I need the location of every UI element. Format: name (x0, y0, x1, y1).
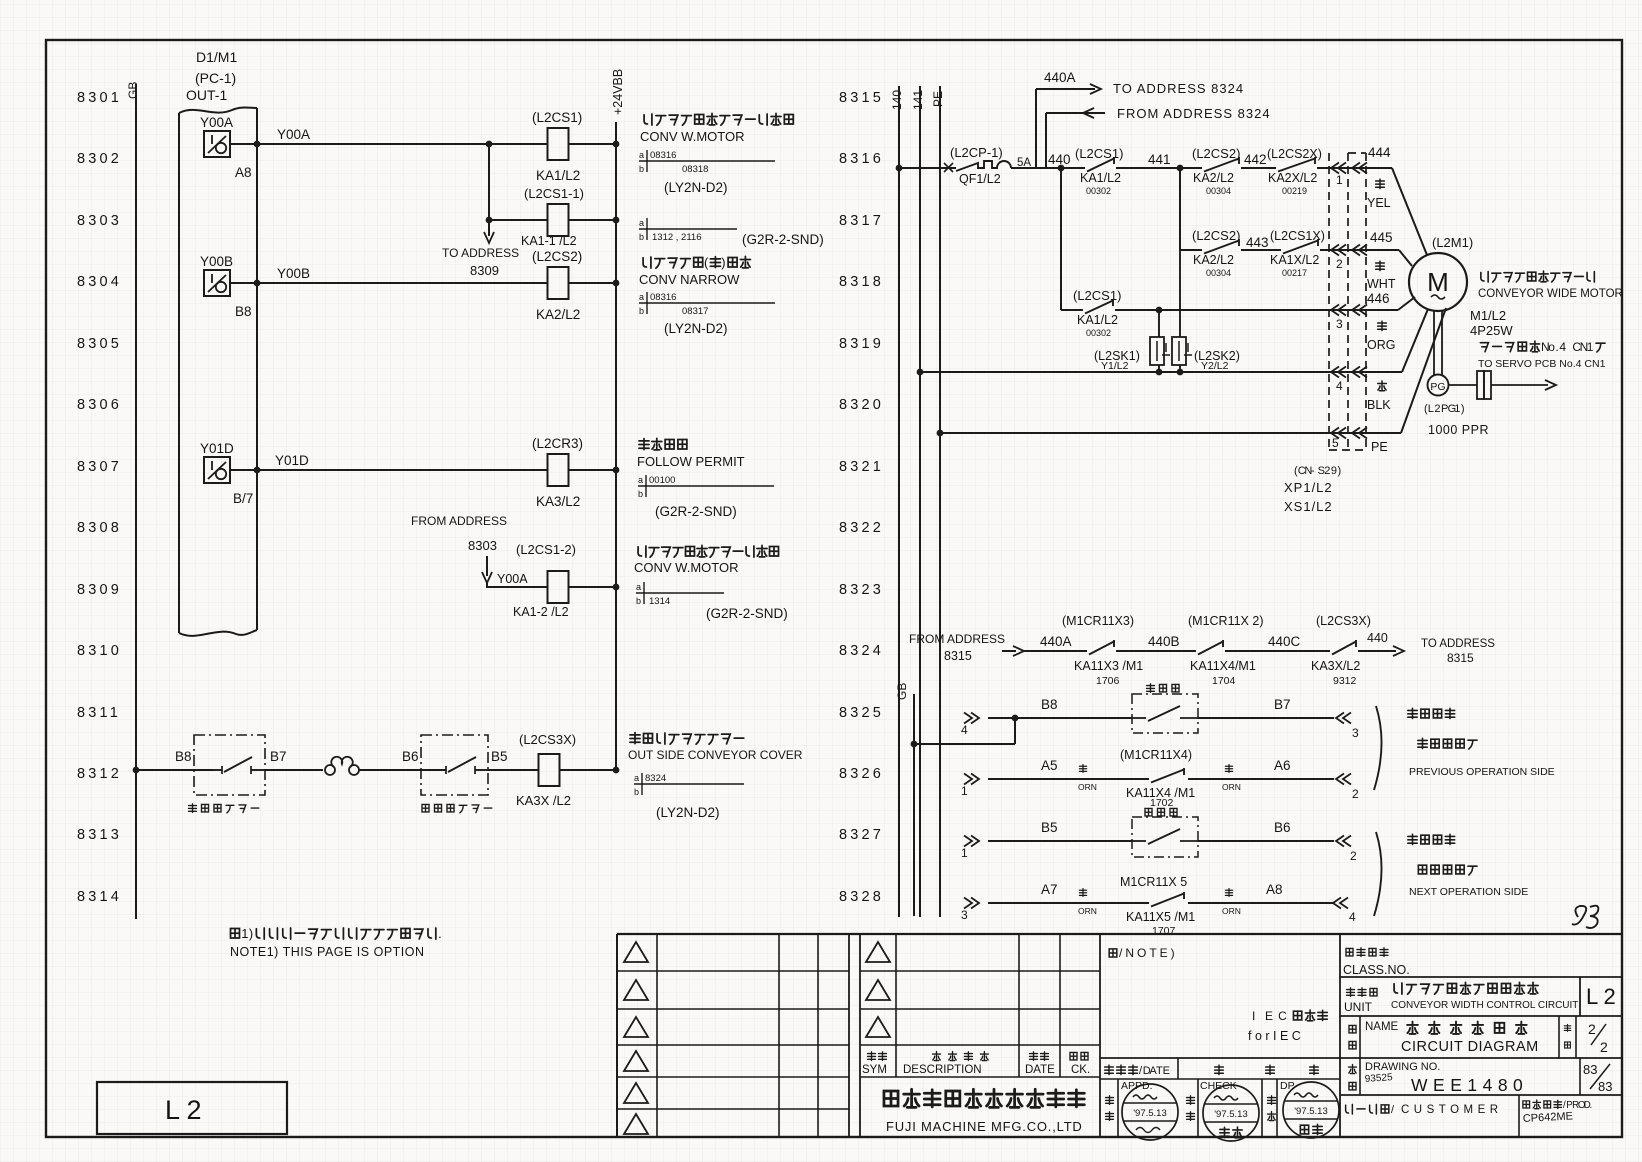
svg-text:2: 2 (1324, 465, 1330, 477)
paper size mark (1572, 906, 1598, 928)
svg-text:08317: 08317 (682, 306, 708, 317)
svg-text:1707: 1707 (1152, 925, 1176, 937)
svg-text:a: a (639, 150, 644, 160)
svg-text:4: 4 (1336, 379, 1343, 393)
connector pin 4 (wire BLK) (1331, 367, 1391, 413)
svg-text:CK.: CK. (1071, 1064, 1090, 1076)
svg-text:(PC-1): (PC-1) (195, 70, 236, 86)
svg-text:Y00A: Y00A (277, 127, 310, 142)
svg-text:8301: 8301 (77, 90, 122, 106)
node 8325 (839, 705, 884, 721)
connector pin 1 (wire 444 YEL) (1331, 145, 1391, 210)
svg-text:8311: 8311 (77, 705, 121, 721)
node 8303 (77, 213, 122, 229)
encoder PG (L2PG1) 1000PPR (1424, 311, 1489, 437)
surge killer Y2/L2 (L2SK2) (1172, 250, 1240, 375)
svg-text:(L2CS2): (L2CS2) (532, 249, 582, 264)
wire Y00B (rung 8304) (230, 266, 619, 286)
revision table left (617, 934, 849, 1138)
node 8324 (839, 643, 884, 659)
svg-text:): ) (1461, 403, 1465, 415)
svg-text:DATE: DATE (1025, 1064, 1055, 1076)
svg-text:A6: A6 (1274, 758, 1291, 773)
svg-text:(M1CR11X3): (M1CR11X3) (1062, 614, 1134, 628)
arrow from address 8303 (411, 514, 507, 583)
svg-text:KA1-2 /L2: KA1-2 /L2 (513, 605, 569, 619)
svg-text:GB: GB (895, 683, 909, 700)
PLC output Y00A (200, 115, 252, 180)
svg-text:ORN: ORN (1078, 782, 1097, 792)
svg-text:ORN: ORN (1078, 906, 1097, 916)
svg-text:00302: 00302 (1086, 186, 1111, 196)
svg-text:B7: B7 (1274, 697, 1291, 712)
motor M1/L2 (L2M1) (1409, 235, 1623, 338)
svg-text:KA3X/L2: KA3X/L2 (1311, 659, 1360, 673)
annotation rung 8312 OUT SIDE CONVEYOR COVER (628, 733, 803, 820)
svg-text:A8: A8 (1266, 882, 1283, 897)
connector pin 3 (wire 446 ORG) (1331, 305, 1395, 353)
svg-text:PREVIOUS OPERATION SIDE: PREVIOUS OPERATION SIDE (1409, 766, 1555, 778)
svg-text:(L2CS1-2): (L2CS1-2) (516, 542, 576, 557)
svg-text:I: I (1252, 1009, 1255, 1023)
svg-text:B5: B5 (491, 749, 508, 764)
svg-text:ORN: ORN (1222, 906, 1241, 916)
svg-text:00219: 00219 (1282, 186, 1307, 196)
svg-text:b: b (638, 489, 643, 499)
svg-text:PE: PE (1371, 440, 1388, 454)
svg-text:L: L (1428, 403, 1434, 415)
relay coil KA3X/L2 (L2CS3X) (516, 732, 619, 808)
svg-text:8312: 8312 (77, 766, 122, 782)
svg-text:(L2CS1): (L2CS1) (1075, 146, 1123, 161)
svg-text:443: 443 (1246, 235, 1269, 250)
svg-text:9: 9 (1331, 465, 1337, 477)
svg-text:a: a (639, 292, 644, 302)
svg-text:8309: 8309 (77, 582, 122, 598)
svg-text:1: 1 (241, 926, 248, 941)
svg-text:KA11X3 /M1: KA11X3 /M1 (1074, 659, 1143, 673)
svg-text:A7: A7 (1041, 882, 1058, 897)
svg-text:(L2CS1X): (L2CS1X) (1270, 229, 1325, 243)
svg-text:KA11X4/M1: KA11X4/M1 (1190, 659, 1256, 673)
svg-text:YEL: YEL (1367, 196, 1391, 210)
svg-text:Y01D: Y01D (200, 441, 234, 456)
svg-text:(M1CR11X 2): (M1CR11X 2) (1188, 614, 1263, 628)
svg-text:FROM ADDRESS 8324: FROM ADDRESS 8324 (1117, 106, 1271, 121)
annotation rung 8302 CONV W.MOTOR (639, 113, 793, 195)
svg-text:.: . (438, 926, 442, 941)
wire rung 8328 (961, 882, 1356, 924)
svg-text:C: C (1278, 1009, 1287, 1023)
svg-text:OUT SIDE CONVEYOR COVER: OUT SIDE CONVEYOR COVER (628, 748, 803, 762)
svg-text:83: 83 (1598, 1079, 1612, 1094)
node 8301 (77, 90, 122, 106)
title block frame (617, 934, 1622, 1138)
svg-text:KA2X/L2: KA2X/L2 (1268, 171, 1317, 185)
svg-text:KA1X/L2: KA1X/L2 (1270, 253, 1319, 267)
svg-text:2: 2 (1434, 403, 1440, 415)
svg-text:(G2R-2-SND): (G2R-2-SND) (706, 606, 788, 621)
bus PE (931, 86, 945, 917)
node 8312 (77, 766, 122, 782)
svg-text:XP1/L2: XP1/L2 (1284, 480, 1333, 495)
annotation rung 8307 FOLLOW PERMIT (637, 438, 774, 519)
svg-text:4P25W: 4P25W (1470, 323, 1513, 338)
relay coil KA2/L2 (L2CS2) (532, 249, 582, 322)
svg-text:): ) (1338, 465, 1342, 477)
connector to servo PCB No.4 CN1 (1449, 340, 1606, 399)
svg-text:Y00B: Y00B (277, 266, 310, 281)
wire rung BLK (917, 369, 1402, 376)
svg-text:1: 1 (1336, 173, 1343, 187)
svg-text:440: 440 (1367, 631, 1388, 645)
svg-text:Y00A: Y00A (497, 572, 528, 586)
svg-text:b: b (639, 232, 644, 242)
surge killer Y1/L2 (L2SK1) (1094, 310, 1170, 375)
svg-text:(: ( (704, 255, 709, 270)
svg-text:QF1/L2: QF1/L2 (959, 172, 1001, 186)
relay coil KA1-2/L2 (L2CS1-2) (513, 542, 576, 619)
node 8317 (839, 213, 884, 229)
svg-text:4: 4 (961, 723, 968, 737)
svg-text:B5: B5 (1041, 820, 1058, 835)
svg-text:TO SERVO PCB No.4 CN1: TO SERVO PCB No.4 CN1 (1478, 358, 1606, 370)
interlock switch next-process (rung 8327) (1132, 808, 1198, 857)
svg-text:00217: 00217 (1282, 268, 1307, 278)
svg-text:3: 3 (1352, 726, 1359, 740)
svg-text:(L2CS2X): (L2CS2X) (1267, 147, 1322, 161)
contact KA11X5/M1 (M1CR11X5) 1707 (1120, 875, 1195, 937)
svg-text:4: 4 (1559, 340, 1566, 354)
svg-text:b: b (636, 596, 641, 606)
svg-text:CLASS.NO.: CLASS.NO. (1343, 963, 1410, 977)
svg-text:DESCRIPTION: DESCRIPTION (903, 1064, 982, 1076)
svg-text:L 2: L 2 (1586, 984, 1616, 1009)
svg-text:1: 1 (1587, 340, 1594, 354)
svg-text:1314: 1314 (649, 596, 670, 607)
node 8307 (77, 459, 122, 475)
svg-text:PE: PE (931, 91, 945, 107)
svg-text:8304: 8304 (77, 274, 122, 290)
svg-text:08316: 08316 (650, 292, 676, 303)
revision table right header (860, 934, 1100, 1138)
approval stamps row (1106, 1079, 1339, 1141)
limit switch B8-B7 previous-process cover (dashed box) (189, 735, 287, 813)
svg-text:b: b (639, 164, 644, 174)
node 8308 (77, 520, 122, 536)
svg-text:-: - (1311, 465, 1315, 477)
svg-text:08316: 08316 (650, 150, 676, 161)
svg-text:.: . (1590, 1100, 1593, 1111)
node 441 (1148, 152, 1183, 250)
svg-text:440B: 440B (1148, 634, 1180, 649)
svg-text:E: E (1265, 1009, 1273, 1023)
svg-text:SYM: SYM (862, 1064, 887, 1076)
node 8306 (77, 397, 122, 413)
svg-text:CONVEYOR WIDTH CONTROL CIRCUIT: CONVEYOR WIDTH CONTROL CIRCUIT (1391, 1000, 1578, 1011)
svg-text:): ) (249, 926, 253, 941)
note cell (1109, 946, 1327, 1043)
interlock switch previous-process (rung 8325) (1132, 684, 1198, 733)
svg-text:b: b (639, 306, 644, 316)
svg-text:A8: A8 (235, 165, 252, 180)
svg-text:2: 2 (1588, 1021, 1596, 1037)
svg-text:8316: 8316 (839, 151, 884, 167)
connector XP1/L2 XS1/L2 housing (1284, 153, 1366, 514)
svg-text:(L2CS1): (L2CS1) (1073, 288, 1121, 303)
svg-text:FROM ADDRESS: FROM ADDRESS (909, 632, 1005, 646)
svg-text:8326: 8326 (839, 766, 884, 782)
svg-text:2: 2 (1600, 1039, 1608, 1055)
svg-text:(LY2N-D2): (LY2N-D2) (664, 321, 728, 336)
svg-text:8324: 8324 (645, 773, 666, 784)
wire branch 8302 to 8303 (486, 144, 493, 223)
svg-text:08318: 08318 (682, 164, 708, 175)
svg-text:b: b (634, 787, 639, 797)
svg-text:CONVEYOR WIDE MOTOR: CONVEYOR WIDE MOTOR (1478, 288, 1623, 300)
customer cell (1340, 1095, 1622, 1138)
svg-text:UNIT: UNIT (1344, 1000, 1373, 1014)
relay coil KA1/L2 (L2CS1) (532, 110, 582, 183)
svg-text:B7: B7 (270, 749, 287, 764)
class no cell (1340, 934, 1410, 1138)
svg-text:8320: 8320 (839, 397, 884, 413)
svg-text:8322: 8322 (839, 520, 884, 536)
svg-text:L 2: L 2 (165, 1095, 202, 1125)
svg-text:M: M (1427, 267, 1449, 297)
svg-text:8318: 8318 (839, 274, 884, 290)
svg-text:B/7: B/7 (233, 491, 253, 506)
signal from address 8324 (1046, 106, 1271, 168)
sheet code box L2 (97, 1082, 287, 1134)
svg-text:o: o (1548, 340, 1555, 354)
svg-text:DRAWING NO.: DRAWING NO. (1365, 1061, 1440, 1073)
wire 8312 segment b (358, 749, 421, 770)
wire node 440 branch (1060, 168, 1062, 310)
svg-text:CONV W.MOTOR: CONV W.MOTOR (634, 560, 738, 575)
node 8328 (839, 889, 884, 905)
svg-text:3: 3 (961, 908, 968, 922)
svg-text:M1CR11X 5: M1CR11X 5 (1120, 875, 1187, 889)
bus 140 (890, 86, 904, 917)
signal 440A to address 8324 (1036, 70, 1244, 168)
unit cell (1340, 977, 1622, 1016)
svg-text:00100: 00100 (649, 475, 675, 486)
svg-text:(L2CS3X): (L2CS3X) (519, 732, 576, 747)
svg-text:(G2R-2-SND): (G2R-2-SND) (742, 232, 824, 247)
svg-text:442: 442 (1244, 152, 1267, 167)
svg-text:'97.5.13: '97.5.13 (1133, 1108, 1167, 1119)
contact KA2/L2 (L2CS2) rung 8316 (1192, 146, 1276, 196)
svg-text:Y00A: Y00A (200, 115, 233, 130)
svg-text:CIRCUIT DIAGRAM: CIRCUIT DIAGRAM (1401, 1039, 1539, 1055)
wire Y01D (rung 8307) (230, 453, 619, 473)
svg-text:1704: 1704 (1212, 675, 1236, 687)
svg-text:KA1/L2: KA1/L2 (1080, 171, 1121, 185)
contact KA11X3/M1 (M1CR11X3) 1706 (1062, 614, 1196, 687)
svg-text:8323: 8323 (839, 582, 884, 598)
svg-text:440A: 440A (1044, 70, 1076, 85)
svg-text:2: 2 (1336, 257, 1343, 271)
svg-text:'97.5.13: '97.5.13 (1214, 1109, 1248, 1120)
svg-text:a: a (634, 773, 639, 783)
svg-text:1312 , 2116: 1312 , 2116 (652, 232, 701, 243)
contact KA3X/L2 (L2CS3X) 9312 (1311, 614, 1371, 687)
svg-text:8303: 8303 (77, 213, 122, 229)
svg-text:CP642ME: CP642ME (1523, 1110, 1574, 1125)
svg-text:a: a (638, 475, 643, 485)
svg-text:8303: 8303 (468, 538, 497, 553)
svg-text:8315: 8315 (1447, 651, 1474, 665)
svg-text:8321: 8321 (839, 459, 884, 475)
node 8323 (839, 582, 884, 598)
svg-text:a: a (639, 218, 644, 228)
svg-text:B6: B6 (402, 749, 419, 764)
svg-text:3: 3 (1336, 317, 1343, 331)
svg-text:KA11X5 /M1: KA11X5 /M1 (1126, 910, 1195, 924)
wire 8316 after breaker (1011, 152, 1085, 171)
svg-text:4: 4 (1349, 910, 1356, 924)
svg-text:1: 1 (961, 784, 968, 798)
svg-text:APPD.: APPD. (1121, 1080, 1153, 1092)
connector pin 5 (wire PE) (1331, 428, 1388, 455)
svg-text:CONV NARROW: CONV NARROW (639, 272, 740, 287)
connector pair (rung 8312) (325, 757, 359, 775)
wire pin1 to motor (1392, 168, 1427, 255)
node 8311 (77, 705, 121, 721)
PLC output Y01D (200, 441, 253, 506)
svg-text:8315: 8315 (839, 90, 884, 106)
svg-text:CHECK: CHECK (1200, 1080, 1237, 1092)
svg-text:(L2CS3X): (L2CS3X) (1316, 614, 1371, 628)
contact KA1/L2 (L2CS1) rung 446 (1061, 288, 1398, 338)
arrow to address 8309 (442, 220, 519, 278)
svg-text:/: / (1391, 1104, 1395, 1116)
svg-text:444: 444 (1368, 145, 1391, 160)
svg-text:1: 1 (1454, 403, 1460, 415)
svg-text:8308: 8308 (77, 520, 122, 536)
svg-text:E: E (1163, 1065, 1170, 1077)
relay coil KA3/L2 (L2CR3) (532, 436, 583, 509)
svg-text:KA1-1 /L2: KA1-1 /L2 (521, 234, 577, 248)
svg-text:B8: B8 (1041, 697, 1058, 712)
svg-text:440C: 440C (1268, 634, 1301, 649)
svg-text:KA2/L2: KA2/L2 (1193, 171, 1234, 185)
svg-text:83: 83 (1583, 1062, 1597, 1077)
node 8318 (839, 274, 884, 290)
svg-text:B8: B8 (235, 304, 252, 319)
svg-text:NOTE1) THIS PAGE IS OPTION: NOTE1) THIS PAGE IS OPTION (230, 945, 425, 959)
node 8309 (77, 582, 122, 598)
drawing no cell (1340, 1058, 1622, 1095)
contact KA2X/L2 (L2CS2X) rung 8316 (1267, 147, 1392, 196)
svg-text:441: 441 (1148, 152, 1171, 167)
wire pin4 to motor (1402, 309, 1428, 372)
svg-text:8317: 8317 (839, 213, 884, 229)
svg-text:a: a (636, 582, 641, 592)
svg-text:(L2CS1): (L2CS1) (532, 110, 582, 125)
svg-text:f o r I E C: f o r I E C (1248, 1029, 1301, 1043)
contact KA11X4/M1 (M1CR11X2) 1704 (1188, 614, 1330, 687)
svg-text:8302: 8302 (77, 151, 122, 167)
wire rung 8325 (961, 697, 1359, 740)
maker name cell (884, 1089, 1084, 1134)
svg-text:/NOTE): /NOTE) (1119, 946, 1178, 960)
svg-text:TO ADDRESS 8324: TO ADDRESS 8324 (1113, 81, 1244, 96)
svg-text:8314: 8314 (77, 889, 122, 905)
svg-text:8325: 8325 (839, 705, 884, 721)
wire rung 8316 (896, 163, 956, 172)
svg-text:(M1CR11X4): (M1CR11X4) (1120, 748, 1192, 762)
svg-text:OUT-1: OUT-1 (186, 87, 227, 103)
bracket previous operation side (1374, 706, 1555, 790)
bracket next operation side (1374, 832, 1528, 916)
svg-text:NAME: NAME (1365, 1021, 1399, 1033)
svg-text:Y2/L2: Y2/L2 (1201, 360, 1229, 372)
svg-text:8307: 8307 (77, 459, 122, 475)
svg-text:440: 440 (1048, 152, 1071, 167)
node 8319 (839, 336, 884, 352)
svg-text:KA1/L2: KA1/L2 (1077, 313, 1118, 327)
svg-text:): ) (721, 255, 725, 270)
svg-text:TO ADDRESS: TO ADDRESS (1421, 638, 1495, 650)
wire rung 8327 (961, 820, 1357, 863)
PLC output module D1/M1 (PC-1) OUT-1 (179, 49, 257, 636)
contact KA2/L2 (L2CS2) rung 445 (1192, 228, 1281, 278)
wire 8312 segment c (488, 769, 539, 771)
svg-text:440A: 440A (1040, 634, 1072, 649)
svg-text:WEE1480: WEE1480 (1411, 1075, 1528, 1095)
svg-text:KA2/L2: KA2/L2 (536, 307, 580, 322)
svg-text:Y1/L2: Y1/L2 (1101, 360, 1129, 372)
svg-text:1000 PPR: 1000 PPR (1428, 423, 1489, 437)
svg-text:GB: GB (126, 82, 140, 99)
wire 8312 segment (265, 769, 323, 771)
svg-text:8305: 8305 (77, 336, 122, 352)
wire rung 8312 from GB (133, 749, 213, 773)
svg-text:(L2CS2): (L2CS2) (1192, 146, 1240, 161)
PLC output Y00B (200, 254, 252, 319)
limit switch B6-B5 next-process cover (dashed box) (421, 735, 508, 813)
svg-text:8327: 8327 (839, 827, 884, 843)
svg-text:XS1/L2: XS1/L2 (1284, 499, 1333, 514)
svg-text:(L2M1): (L2M1) (1432, 235, 1473, 250)
svg-text:2: 2 (1352, 787, 1359, 801)
svg-text:(LY2N-D2): (LY2N-D2) (656, 805, 720, 820)
wire rung 445 (1180, 249, 1202, 251)
node 8320 (839, 397, 884, 413)
bus 141 (911, 86, 925, 917)
svg-text:1: 1 (961, 846, 968, 860)
wire pin5 to motor (1401, 308, 1446, 433)
node 8313 (77, 827, 122, 843)
note: this page is option (230, 926, 442, 959)
svg-text:FUJI MACHINE MFG.CO.,LTD: FUJI MACHINE MFG.CO.,LTD (886, 1119, 1083, 1134)
svg-text:(LY2N-D2): (LY2N-D2) (664, 180, 728, 195)
svg-text:(L2CR3): (L2CR3) (532, 436, 583, 451)
svg-text:PG: PG (1430, 381, 1445, 393)
svg-text:TO ADDRESS: TO ADDRESS (442, 246, 519, 260)
contact KA1/L2 (L2CS1) rung 8316 (1075, 146, 1202, 196)
svg-text:+24VBB: +24VBB (611, 69, 625, 115)
svg-text:8310: 8310 (77, 643, 122, 659)
contact KA11X4/M1 (M1CR11X4) 1702 (1120, 748, 1195, 809)
node 8321 (839, 459, 884, 475)
svg-text:8328: 8328 (839, 889, 884, 905)
svg-text:(G2R-2-SND): (G2R-2-SND) (655, 504, 737, 519)
node 8305 (77, 336, 122, 352)
annotation rung 8304 CONV NARROW (639, 255, 775, 336)
